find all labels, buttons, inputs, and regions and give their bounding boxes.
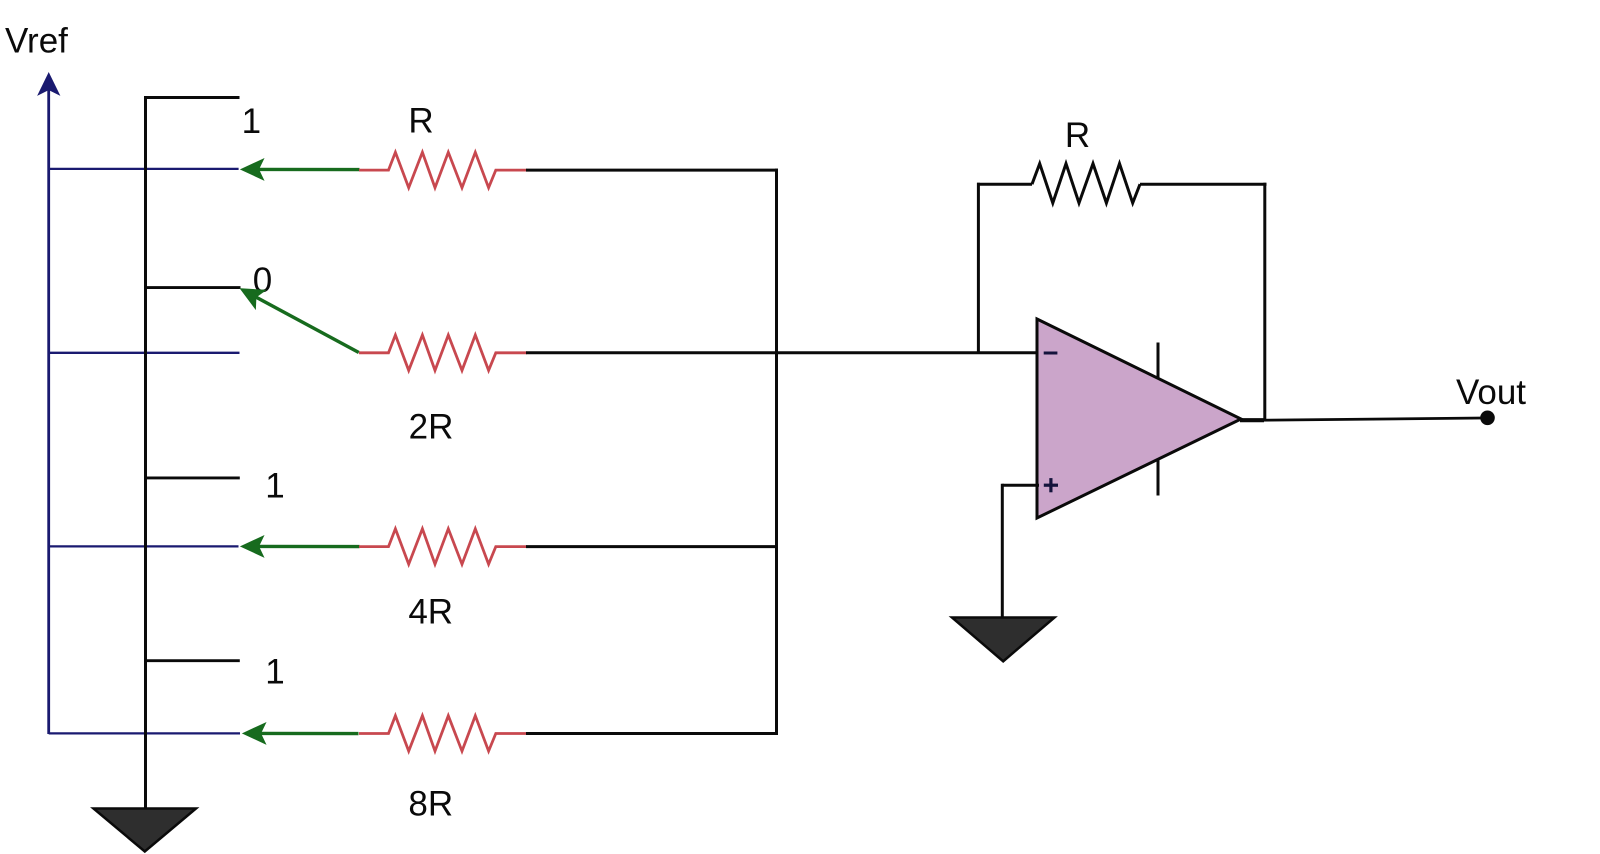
wire feedback top right	[1140, 183, 1267, 186]
wire R2 to bus	[526, 351, 778, 354]
resistor R2 (2R)	[359, 335, 527, 370]
wire feedback top left	[977, 183, 1032, 186]
wire R1 to bus	[526, 169, 778, 172]
wire noninverting input	[1002, 484, 1039, 487]
resistor R3 (4R)	[359, 529, 527, 564]
wire stub bit3	[144, 476, 240, 479]
op-amp strobe line	[1157, 343, 1160, 496]
ground left	[94, 809, 197, 852]
wire to ground	[1001, 484, 1004, 618]
resistor Rf (feedback R)	[1032, 164, 1140, 203]
pin plus	[1044, 478, 1058, 492]
wire Vref net row1	[49, 168, 239, 170]
wire Vref net row3	[49, 545, 239, 547]
wire Vref net row4	[49, 732, 240, 734]
svg-text:2R: 2R	[409, 407, 454, 446]
wire op-amp tip lead	[1240, 418, 1264, 422]
switch S4 arrow	[243, 723, 359, 744]
switch S2 arrow	[241, 289, 359, 353]
wire feedback right vertical	[1263, 183, 1266, 421]
wire Vref net row2	[49, 352, 240, 354]
switch S1 arrow	[241, 159, 360, 180]
wire stub bit1	[144, 96, 240, 99]
svg-text:4R: 4R	[408, 593, 453, 632]
svg-text:R: R	[408, 102, 433, 141]
node Vout junction dot	[1480, 411, 1495, 426]
svg-text:Vout: Vout	[1456, 373, 1526, 412]
resistor R4 (8R)	[359, 716, 527, 751]
Vref source arrow	[38, 73, 59, 734]
wire summing bus	[775, 169, 778, 735]
wire R3 to bus	[526, 545, 778, 548]
wire R4 to bus	[526, 732, 778, 735]
pin minus	[1044, 352, 1058, 355]
switch S3 arrow	[241, 536, 360, 557]
wire feedback left vertical	[977, 183, 980, 353]
svg-text:8R: 8R	[408, 784, 453, 823]
svg-text:1: 1	[265, 467, 284, 506]
svg-text:1: 1	[242, 102, 261, 141]
ground op-amp	[952, 618, 1055, 662]
wire digital ground bus	[144, 96, 147, 809]
wire bus to inverting input	[777, 351, 1040, 354]
svg-text:Vref: Vref	[5, 22, 68, 61]
op-amp U1	[1037, 319, 1241, 518]
resistor R1 (R)	[359, 152, 527, 187]
wire stub bit2	[144, 286, 241, 289]
svg-text:R: R	[1065, 116, 1090, 155]
svg-text:1: 1	[265, 653, 284, 692]
wire output	[1240, 418, 1483, 420]
wire stub bit4	[144, 659, 240, 662]
